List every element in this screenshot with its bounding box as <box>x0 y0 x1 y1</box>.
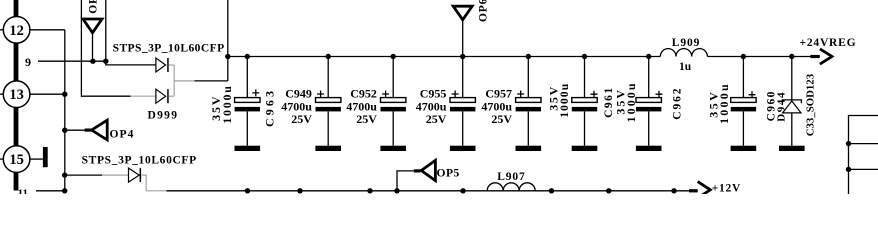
ground C962 <box>636 146 662 151</box>
diode pair 2 feed <box>65 174 102 176</box>
svg-text:1000u: 1000u <box>220 84 234 123</box>
capacitor C961 <box>584 57 586 98</box>
svg-text:C962: C962 <box>671 87 683 120</box>
capacitor C955 <box>462 57 464 98</box>
inductor L907 <box>487 183 535 191</box>
junction diode2 feed <box>62 172 67 177</box>
diode 2 <box>129 168 140 182</box>
svg-text:9: 9 <box>25 55 31 69</box>
svg-text:OP9: OP9 <box>88 0 100 14</box>
diode D944 <box>791 57 793 100</box>
pin 11 wire <box>36 190 65 192</box>
ground C955 <box>450 146 476 151</box>
+24VREG power arrow <box>810 55 820 58</box>
ground C949 <box>315 146 341 151</box>
svg-text:+12V: +12V <box>712 183 741 194</box>
main +24V rail <box>228 56 661 58</box>
OP9 off-page (clipped at top) <box>83 19 102 33</box>
svg-text:C957: C957 <box>485 86 512 100</box>
svg-text:D944: D944 <box>775 91 787 122</box>
svg-text:L909: L909 <box>672 37 701 49</box>
svg-text:1u: 1u <box>679 61 692 73</box>
rail after L909 <box>707 56 810 58</box>
pin 9 wire <box>38 60 106 62</box>
OP6 off-page <box>453 6 472 20</box>
svg-text:OP4: OP4 <box>110 128 135 140</box>
+12V power arrow <box>689 189 698 192</box>
wire pin15 stub <box>30 158 43 160</box>
ground C961 <box>572 146 598 151</box>
ground C957 <box>516 146 542 151</box>
svg-text:25V: 25V <box>291 112 312 126</box>
connector bus <box>14 0 19 17</box>
svg-text:12: 12 <box>9 23 24 39</box>
svg-text:25V: 25V <box>491 112 512 126</box>
OP4 triangle <box>92 120 108 140</box>
wire gray to D999 anode <box>131 95 156 97</box>
svg-text:C33_SOD123: C33_SOD123 <box>805 73 817 136</box>
right connector <box>849 116 878 195</box>
ground C960 <box>731 146 757 151</box>
top wire B <box>105 0 107 61</box>
pin15 termination bar <box>43 147 48 167</box>
ground C952 <box>380 146 406 151</box>
junction wire B <box>103 59 108 64</box>
pin 15 <box>0 158 3 160</box>
svg-text:C963: C963 <box>263 88 277 127</box>
svg-text:13: 13 <box>9 87 24 103</box>
OP4 stem <box>85 129 92 132</box>
capacitor C962 <box>648 57 650 98</box>
wire pin12 to vertical <box>30 29 65 31</box>
diode D999 top half <box>156 58 166 72</box>
svg-text:+24VREG: +24VREG <box>800 37 857 49</box>
top wire A (to D999 anode via top edge) <box>81 0 130 96</box>
svg-text:C952: C952 <box>350 86 377 100</box>
pin 13 <box>0 93 3 95</box>
OP4 wire <box>65 129 85 131</box>
+12V bottom rail <box>166 190 689 192</box>
OP5 off-page <box>397 171 414 191</box>
svg-text:25V: 25V <box>356 112 377 126</box>
output to rail <box>174 80 194 82</box>
vertical net wire x=64.8 <box>64 30 66 191</box>
jog to diode D999 top anode <box>106 61 156 65</box>
svg-text:C949: C949 <box>285 86 312 100</box>
svg-text:1000u: 1000u <box>559 83 571 118</box>
capacitor C949 <box>327 57 329 98</box>
svg-text:L907: L907 <box>497 171 526 183</box>
svg-text:C955: C955 <box>420 86 447 100</box>
svg-text:STPS_3P_10L60CFP: STPS_3P_10L60CFP <box>82 154 197 166</box>
junction pin13 <box>62 92 67 97</box>
junction OP9 stem <box>90 59 95 64</box>
svg-text:OP6: OP6 <box>477 0 489 22</box>
svg-text:OP5: OP5 <box>437 168 460 180</box>
cathode join vertical <box>173 65 175 96</box>
junction OP4 <box>62 128 67 133</box>
capacitor C960 <box>742 57 744 98</box>
pin 12 <box>0 29 3 31</box>
inductor L909 <box>660 49 707 57</box>
vertical from top edge to rail <box>227 0 229 81</box>
svg-text:11: 11 <box>18 188 28 195</box>
ground D944 <box>779 146 805 151</box>
wire pin13 to vertical <box>30 93 65 95</box>
ground C963 <box>235 146 261 151</box>
svg-text:STPS_3P_10L60CFP: STPS_3P_10L60CFP <box>113 42 225 54</box>
junction pin11 <box>62 188 67 193</box>
capacitor C957 <box>527 57 529 98</box>
svg-text:D999: D999 <box>148 110 179 122</box>
capacitor C963 <box>246 57 248 98</box>
svg-text:15: 15 <box>9 152 24 168</box>
svg-text:1000u: 1000u <box>717 82 731 124</box>
svg-text:25V: 25V <box>426 112 447 126</box>
capacitor C952 <box>392 57 394 98</box>
diode D999 bottom half <box>156 89 166 103</box>
svg-text:1000u: 1000u <box>624 81 638 122</box>
diode 2 output <box>141 175 166 191</box>
